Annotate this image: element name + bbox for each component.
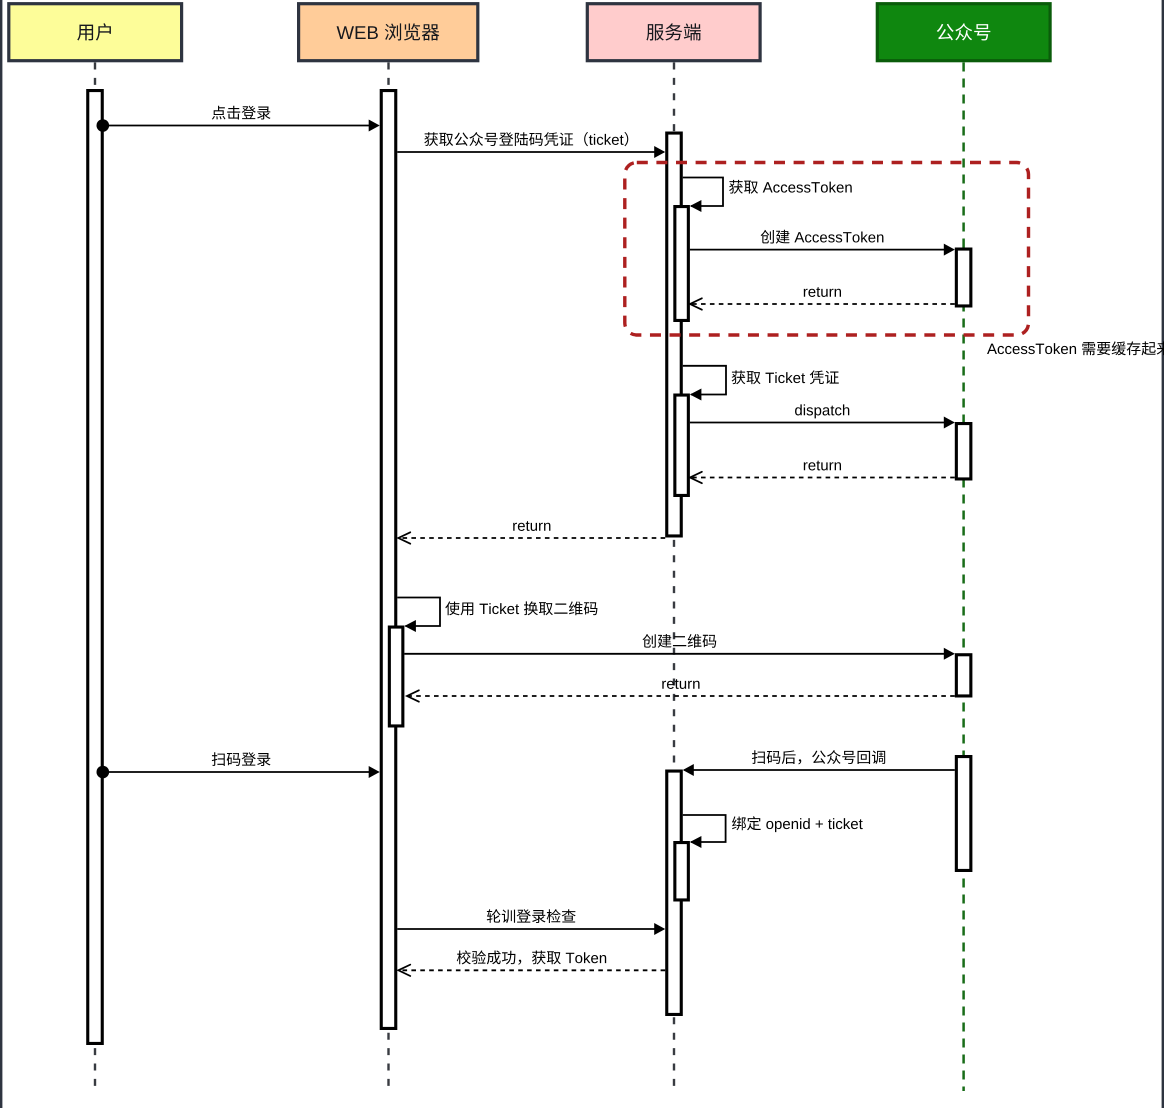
actor WEB 浏览器 xyxy=(299,4,478,61)
activation WEB W1 换取二维码 xyxy=(389,627,403,726)
message 创建 AccessToken xyxy=(690,230,955,256)
activation 服务端 C1 绑定 xyxy=(675,843,689,900)
red dashed group box AccessToken 缓存 xyxy=(625,163,1029,336)
message 扫码登录 xyxy=(97,752,380,778)
self-message 绑定 openid + ticket xyxy=(683,815,863,848)
message 轮训登录检查 xyxy=(397,909,665,935)
message 创建二维码 xyxy=(404,634,954,660)
message 扫码后公众号回调 xyxy=(683,750,955,776)
frame left border xyxy=(0,0,2,1108)
message 点击登录 xyxy=(97,106,380,132)
lifeline 用户 xyxy=(94,63,96,1092)
actor 公众号 xyxy=(877,4,1050,61)
message return 1 xyxy=(690,287,955,310)
message return 2 xyxy=(690,461,955,484)
lifeline 服务端 xyxy=(673,63,675,1092)
activation 公众号 B4 扫码回调 xyxy=(956,757,971,871)
activation 公众号 B3 创建二维码 xyxy=(956,655,971,696)
frame right border xyxy=(1162,0,1164,1108)
lifeline WEB 浏览器 xyxy=(387,63,389,1092)
message 校验成功获取Token xyxy=(398,950,665,976)
activation 服务端 C xyxy=(667,771,682,1014)
message dispatch xyxy=(690,404,955,428)
activation 服务端 A1 获取AccessToken xyxy=(675,207,689,321)
activation WEB main xyxy=(381,91,396,1029)
activation 公众号 B1 创建AccessToken xyxy=(956,249,971,306)
activation 用户 main xyxy=(88,91,103,1044)
activation 服务端 A xyxy=(667,133,682,536)
actor 服务端 xyxy=(587,4,760,61)
message return 4 xyxy=(407,679,955,702)
self-message 使用 Ticket 换取二维码 xyxy=(397,598,597,633)
message 获取公众号登陆码凭证 xyxy=(397,132,665,158)
activation 公众号 B2 dispatch xyxy=(956,424,971,479)
message return 3 xyxy=(398,521,665,544)
self-message 获取 Ticket 凭证 xyxy=(683,366,839,401)
lifeline 公众号 xyxy=(962,63,965,1092)
self-message 获取 AccessToken xyxy=(683,178,852,213)
actor 用户 xyxy=(9,4,182,61)
note label AccessToken 需要缓存起来 xyxy=(987,341,1164,355)
activation 服务端 A2 获取Ticket xyxy=(675,395,689,495)
